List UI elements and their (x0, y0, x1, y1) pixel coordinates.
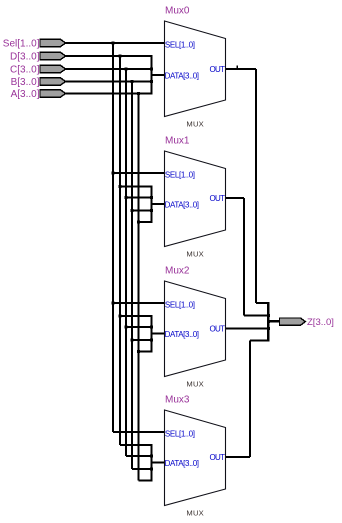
wire D tap to Mux1 joiner (120, 186, 153, 188)
wire A vertical drop (137, 94, 139, 481)
svg-text:Z[3..0]: Z[3..0] (307, 317, 334, 328)
wire Mux2 DATA joiner (151, 316, 153, 352)
wire into Mux1 DATA pin (152, 203, 165, 205)
junction A drop tee (137, 92, 140, 95)
wire Mux1 OUT into Z joiner (244, 314, 270, 316)
wire D tap to Mux3 joiner (120, 444, 153, 446)
wire C tap to Mux2 joiner (126, 326, 153, 328)
svg-text:B[3..0]: B[3..0] (11, 77, 40, 88)
junction Z joiner output (267, 320, 270, 323)
mux U0 Mux0 symbol body (165, 21, 226, 117)
junction C tap Mux2 (125, 326, 128, 329)
junction joiner Mux3 C (150, 455, 153, 458)
svg-text:MUX: MUX (186, 379, 204, 388)
wire A tap to Mux1 joiner (138, 221, 152, 223)
wire to Z connector (268, 320, 280, 322)
junction joiner Mux3 B (150, 468, 153, 471)
svg-text:OUT: OUT (210, 194, 226, 203)
wire B to Mux0 joiner (66, 81, 153, 83)
wire Sel to Mux0 SEL (66, 42, 165, 44)
junction D tap Mux1 (118, 185, 121, 188)
svg-text:MUX: MUX (186, 249, 204, 258)
junction joiner Mux2 C (150, 326, 153, 329)
junction joiner Mux2 B (150, 339, 153, 342)
wire Mux3 OUT into Z joiner (250, 339, 270, 341)
wire Mux1 DATA joiner (151, 187, 153, 223)
junction Sel tap Mux1 (112, 172, 115, 175)
wire Mux3 OUT up (249, 340, 251, 457)
wire D tap to Mux2 joiner (120, 315, 153, 317)
input connector C[3..0] (40, 65, 66, 72)
junction D drop tee (118, 55, 121, 58)
wire SEL tap to Mux1 (113, 172, 164, 174)
svg-text:SEL[1..0]: SEL[1..0] (165, 429, 195, 438)
junction joiner Mux1 C (150, 196, 153, 199)
input connector B[3..0] (40, 78, 66, 85)
junction B tap Mux2 (131, 339, 134, 342)
svg-text:MUX: MUX (186, 508, 204, 517)
wire A tap to Mux2 joiner (138, 351, 152, 353)
junction joiner Mux0 C (150, 68, 153, 71)
svg-text:Mux1: Mux1 (165, 136, 190, 147)
wire D vertical drop (119, 56, 121, 445)
mux U1 Mux1 symbol body (165, 151, 226, 247)
input connector Sel[1..0] (40, 39, 66, 46)
wire Mux0 OUT right (226, 68, 257, 70)
svg-text:A[3..0]: A[3..0] (11, 89, 40, 100)
junction joiner Mux1 B (150, 209, 153, 212)
svg-text:Sel[1..0]: Sel[1..0] (3, 39, 40, 50)
svg-text:MUX: MUX (186, 119, 204, 128)
svg-text:Mux2: Mux2 (165, 266, 190, 277)
wire Mux1 OUT down (243, 198, 245, 315)
wire Z output joiner (267, 303, 269, 341)
junction joiner Mux0 B (150, 80, 153, 83)
svg-text:OUT: OUT (210, 324, 226, 333)
junction B drop tee (131, 80, 134, 83)
wire Mux3 OUT right (226, 456, 251, 458)
wire C tap to Mux1 joiner (126, 197, 153, 199)
junction B tap Mux1 (131, 209, 134, 212)
wire A to Mux0 joiner (66, 93, 153, 95)
wire SEL tap to Mux3 (113, 431, 164, 433)
wire Mux2 OUT into Z joiner (226, 328, 270, 330)
svg-text:SEL[1..0]: SEL[1..0] (165, 170, 195, 179)
wire C to Mux0 joiner (66, 68, 153, 70)
wire Mux0 OUT into Z joiner (256, 302, 270, 304)
wire SEL tap to Mux2 (113, 302, 164, 304)
wire B tap to Mux1 joiner (132, 210, 153, 212)
svg-text:OUT: OUT (210, 453, 226, 462)
mux U2 Mux2 symbol body (165, 281, 226, 377)
wire Mux1 OUT right (226, 197, 245, 199)
wire B tap to Mux3 joiner (132, 468, 153, 470)
wire into Mux3 DATA pin (152, 462, 165, 464)
svg-text:DATA[3..0]: DATA[3..0] (165, 71, 199, 80)
junction D tap Mux2 (118, 315, 121, 318)
wire Mux0 DATA joiner (151, 56, 153, 94)
wire D to Mux0 joiner (66, 55, 153, 57)
wire C vertical drop (125, 69, 127, 456)
svg-text:DATA[3..0]: DATA[3..0] (165, 200, 199, 209)
wire B tap to Mux2 joiner (132, 339, 153, 341)
junction Z joiner Mux2 (267, 327, 270, 330)
junction C tap Mux1 (125, 196, 128, 199)
wire C tap to Mux3 joiner (126, 455, 153, 457)
wire Mux0 OUT down (255, 69, 257, 303)
junction Sel tap Mux2 (112, 302, 115, 305)
junction C drop tee (125, 68, 128, 71)
svg-text:SEL[1..0]: SEL[1..0] (165, 40, 195, 49)
output connector Z[3..0] (280, 318, 306, 325)
wire A tap to Mux3 joiner (138, 480, 152, 482)
junction A tap Mux1 (137, 221, 140, 224)
input connector A[3..0] (40, 90, 66, 97)
net tick Mux0 OUT (236, 66, 238, 69)
svg-text:SEL[1..0]: SEL[1..0] (165, 300, 195, 309)
svg-text:Mux3: Mux3 (165, 395, 190, 406)
svg-text:Mux0: Mux0 (165, 6, 190, 17)
svg-text:DATA[3..0]: DATA[3..0] (165, 459, 199, 468)
wire into Mux0 DATA pin (152, 74, 165, 76)
junction Sel drop tee (112, 42, 115, 45)
wire into Mux2 DATA pin (152, 333, 165, 335)
input connector D[3..0] (40, 52, 66, 59)
svg-text:DATA[3..0]: DATA[3..0] (165, 330, 199, 339)
wire Mux3 DATA joiner (151, 445, 153, 481)
svg-text:D[3..0]: D[3..0] (10, 52, 40, 63)
junction A tap Mux2 (137, 350, 140, 353)
svg-text:OUT: OUT (210, 65, 226, 74)
svg-text:C[3..0]: C[3..0] (10, 65, 40, 76)
junction Z joiner Mux1 (267, 314, 270, 317)
wire Sel vertical drop (112, 43, 114, 432)
mux U3 Mux3 symbol body (165, 410, 226, 506)
wire B vertical drop (131, 82, 133, 470)
